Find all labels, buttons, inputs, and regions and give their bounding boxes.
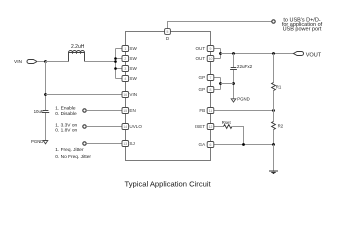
pin SW 1 [122,46,129,52]
ground GND solid [269,171,278,174]
wire stub SW3 [116,68,123,70]
wire inductor to SW bus [85,61,116,63]
svg-text:SW: SW [129,46,137,51]
svg-text:EN: EN [129,108,135,113]
pin VIN 16 [122,92,129,98]
wire stub SW4 [116,78,123,80]
wire stub SW1 [116,48,123,50]
svg-text:SJ: SJ [129,141,134,146]
pin numbers [123,30,212,147]
node OUT junction [219,52,222,55]
svg-text:0. No Freq. Jitter: 0. No Freq. Jitter [55,154,91,160]
pin SJ 13 [122,141,129,147]
wire GP1 stub [214,77,221,79]
wire FB line [214,110,274,112]
node SW3 junction [114,67,117,70]
node FB divider junction [272,109,275,112]
wire D pin to USB terminal [168,22,272,29]
svg-text:8: 8 [210,88,212,92]
svg-text:SW: SW [129,56,137,61]
svg-text:UVLO: UVLO [129,124,142,129]
terminal circle UVLO [83,125,86,128]
svg-text:4: 4 [124,77,126,81]
wire stub SW2 [116,58,123,60]
pin ISET 12 [207,124,214,130]
wire ISET stub [214,126,224,128]
node GP junction on cap wire [232,82,235,85]
pin EN 15 [122,108,129,114]
resistor R1 [272,83,276,91]
wire Rset to GA line [232,127,243,145]
svg-text:VIN: VIN [14,59,23,65]
wire GP to cap wire [221,83,234,85]
svg-text:ISET: ISET [195,124,205,129]
svg-text:15: 15 [123,109,127,113]
svg-text:1. Enable: 1. Enable [55,106,76,112]
svg-text:GP: GP [199,87,206,92]
svg-text:0. Disable: 0. Disable [55,111,77,117]
svg-text:FB: FB [199,108,205,113]
pin GP 8 [207,87,214,93]
VIN port connector [27,60,37,64]
pin boxes left [122,29,214,148]
svg-text:6: 6 [210,143,212,147]
resistor R2 [272,122,276,130]
node Rset GA junction [242,143,245,146]
wire GP bracket [220,78,222,90]
wire SW bus vertical [115,49,117,79]
svg-text:1. Freq. Jitter: 1. Freq. Jitter [55,147,84,153]
svg-text:PGND: PGND [237,96,249,101]
pin GA 6 [207,142,214,148]
pin FB 11 [207,108,214,114]
pin UVLO 14 [122,124,129,130]
svg-text:13: 13 [123,142,127,146]
terminal circle EN [83,109,86,112]
ground PGND right [231,99,236,102]
pin SW 2 [122,56,129,62]
wire GA line [214,144,274,146]
IC U1 body [126,32,211,161]
wire OUT2 stub [214,58,221,60]
pin OUT 9 [207,46,214,52]
svg-text:10: 10 [209,57,213,61]
svg-text:VOUT: VOUT [306,53,322,59]
svg-text:5: 5 [167,30,169,34]
node R1 branch [272,52,275,55]
svg-text:14: 14 [123,125,127,129]
svg-text:Typical Application Circuit: Typical Application Circuit [125,179,212,188]
svg-text:3: 3 [124,67,126,71]
svg-text:22uFx2: 22uFx2 [237,64,253,69]
svg-text:0. 1.8V on: 0. 1.8V on [55,127,77,133]
wire VIN junction to inductor [46,61,69,63]
wire UVLO [86,126,122,128]
svg-text:11: 11 [209,109,213,113]
svg-text:10uF: 10uF [34,109,44,114]
svg-text:SW: SW [129,76,137,81]
svg-text:OUT: OUT [195,46,205,51]
svg-text:Rset: Rset [222,120,232,125]
ground PGND left [43,141,48,144]
node GP mid junction [219,82,222,85]
pin SW 3 [122,66,129,72]
svg-text:R1: R1 [276,84,282,89]
wire input cap branch vertical [45,62,47,141]
svg-text:2: 2 [124,57,126,61]
svg-text:7: 7 [210,76,212,80]
svg-text:16: 16 [123,93,127,97]
svg-text:D: D [166,36,170,41]
capacitor C1 10uF [42,111,49,113]
VOUT port connector [294,52,304,56]
node VIN pin branch [44,93,47,96]
pin OUT 10 [207,56,214,62]
terminal circle SJ [83,142,86,145]
wire EN [86,110,122,112]
inductor L1 2.2uH [69,51,85,62]
node SW2 junction [114,57,117,60]
wire output cap branch [233,54,235,99]
wire R1 top segment [273,54,275,111]
wire VOUT line [221,53,294,55]
capacitor C2 22uFx2 [230,68,237,70]
wire SJ [86,143,122,145]
wire OUT1 stub [214,48,221,50]
wire OUT bracket [220,49,222,59]
pin labels [129,36,206,147]
svg-text:VIN: VIN [129,92,137,97]
wire to VIN pin [46,94,123,96]
svg-text:R2: R2 [278,124,284,129]
node VIN-SW junction [114,60,117,63]
svg-text:GP: GP [199,75,206,80]
svg-text:USB power port: USB power port [283,27,322,33]
wire VIN to junction [37,61,46,63]
svg-text:OUT: OUT [195,56,205,61]
terminal circle USB [272,20,275,23]
node VIN junction [44,60,47,63]
node R2 GA junction [272,143,275,146]
wire GP2 stub [214,89,221,91]
svg-text:9: 9 [210,47,212,51]
wire R2 segments [273,111,275,145]
svg-text:PGND: PGND [31,139,43,144]
svg-text:2.2uH: 2.2uH [71,44,85,50]
svg-text:SW: SW [129,66,137,71]
resistor Rset [224,125,233,129]
node cap branch [232,52,235,55]
svg-text:12: 12 [209,125,213,129]
pin GP 7 [207,75,214,81]
svg-text:GA: GA [199,142,207,147]
wire to ground [273,145,275,171]
pin D 5 [165,29,171,35]
svg-text:1: 1 [124,47,126,51]
pin SW 4 [122,76,129,82]
